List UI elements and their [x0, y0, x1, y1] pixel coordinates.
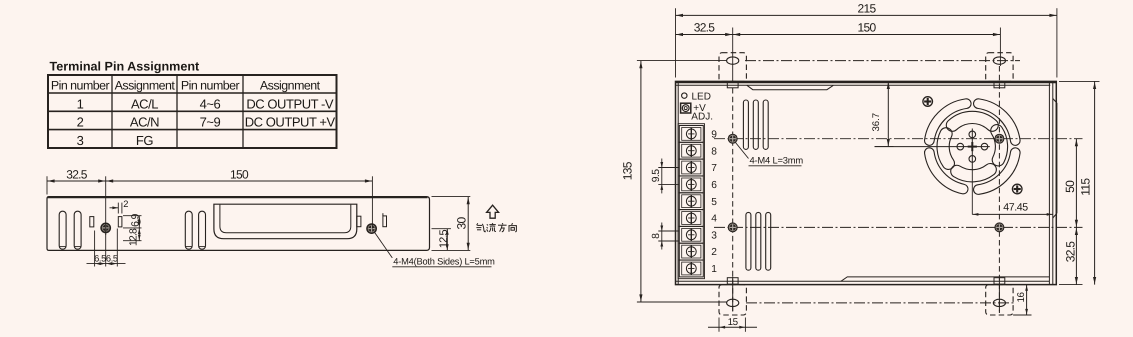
dim 32.5 / 150 (top) — [676, 21, 1001, 82]
mounting bracket bottom-right (dashed) — [986, 278, 1013, 315]
svg-text:6.5: 6.5 — [106, 254, 118, 264]
svg-text:7: 7 — [711, 163, 717, 174]
svg-text:32.5: 32.5 — [66, 167, 88, 181]
bottom bracket centerline solids — [733, 277, 1000, 312]
svg-text:2: 2 — [711, 247, 717, 258]
leader 4-M4 L=3mm — [736, 143, 804, 166]
vertical dashed centerline right screws — [998, 66, 1000, 313]
4-M4 screw top-left — [728, 134, 738, 144]
top view: inner edge lines — [676, 81, 1053, 284]
svg-text:115: 115 — [1078, 178, 1092, 196]
svg-text:Assignment: Assignment — [260, 79, 321, 93]
horizontal dash-dot through top brackets — [745, 60, 1020, 62]
svg-text:215: 215 — [858, 2, 877, 16]
svg-text:12.5: 12.5 — [438, 230, 450, 249]
svg-text:ADJ.: ADJ. — [691, 112, 713, 123]
svg-text:Assignment: Assignment — [115, 79, 176, 93]
svg-text:2: 2 — [123, 199, 128, 209]
top view: bottom cover seam — [841, 277, 1050, 281]
svg-text:150: 150 — [858, 21, 877, 35]
svg-text:8: 8 — [651, 233, 662, 239]
side view: mounting screw hole 2 — [366, 223, 377, 234]
svg-text:6: 6 — [711, 180, 717, 191]
top view: right cover flap — [1053, 99, 1057, 219]
side view: chassis body outline — [47, 197, 430, 251]
svg-text:3: 3 — [711, 230, 717, 241]
svg-text:15: 15 — [728, 317, 739, 328]
fan grille inner kidney slots — [937, 111, 1008, 182]
table grid — [48, 75, 337, 148]
svg-text:9.5: 9.5 — [651, 169, 662, 182]
svg-text:4: 4 — [711, 214, 717, 225]
LED indicator — [682, 91, 711, 102]
dim 15 (bracket width) — [708, 317, 757, 332]
svg-text:12.8: 12.8 — [129, 228, 140, 246]
fan hub small holes — [957, 131, 988, 162]
dim 47.45 (fan center to right edge) — [972, 170, 1053, 216]
mounting bracket top-right (dashed) — [986, 53, 1013, 88]
svg-text:1: 1 — [711, 264, 717, 275]
top view: top cover seam ridge — [747, 85, 833, 89]
side view: label recess outer — [214, 204, 357, 239]
dim 32.5 (side view) — [47, 167, 106, 194]
svg-text:AC/L: AC/L — [131, 96, 158, 111]
svg-text:47.45: 47.45 — [1003, 202, 1028, 214]
top view: vent slot group upper — [743, 100, 768, 149]
svg-text:1: 1 — [77, 96, 84, 111]
dim 50 (screw rows) + 32.5 (to bottom) — [1059, 139, 1083, 285]
dim 36.7 (top edge to fan center) — [871, 81, 893, 146]
dim 6.5 6.5 (below screw 1) — [87, 229, 126, 267]
dim 135 (left, bracket holes) — [621, 61, 727, 302]
top view: vent slot group lower — [746, 212, 771, 270]
side view: label recess inner lip — [220, 205, 351, 233]
svg-text:32.5: 32.5 — [694, 21, 716, 35]
dim 215 (top) — [676, 2, 1057, 78]
svg-text:32.5: 32.5 — [1063, 241, 1077, 263]
dim 30 (side view height) — [432, 197, 471, 251]
case screw top-left of fan — [923, 97, 933, 107]
svg-text:DC OUTPUT -V: DC OUTPUT -V — [246, 96, 334, 111]
4-M4 screw bottom-left — [728, 222, 738, 232]
leader 4-M4(Both Sides) L=5mm — [375, 232, 496, 266]
svg-text:3: 3 — [77, 133, 84, 148]
svg-text:16: 16 — [1016, 292, 1027, 303]
terminal numbers 9..1 — [711, 130, 717, 276]
dim 12.5 (screw height) — [432, 229, 451, 251]
case screw bottom-right of fan — [1012, 184, 1022, 194]
svg-text:DC OUTPUT +V: DC OUTPUT +V — [245, 115, 336, 130]
horizontal dash-dot centerline upper screws — [714, 138, 1083, 140]
horizontal dash-dot through bottom brackets — [746, 302, 1014, 304]
dim 9.5 (terminal pitch) — [651, 159, 680, 194]
dim 6.9 and 12.8 (side view) — [123, 213, 142, 246]
terminal block with 9 screw terminals — [678, 124, 704, 279]
svg-text:4-M4(Both Sides) L=5mm: 4-M4(Both Sides) L=5mm — [393, 256, 495, 266]
side view: mounting screw hole 1 — [100, 223, 111, 234]
dim 16 (bracket below body) — [1013, 285, 1031, 315]
svg-text:7~9: 7~9 — [200, 115, 221, 130]
airflow arrow symbol — [487, 205, 499, 218]
dim 115 (overall) — [1059, 81, 1100, 284]
svg-text:Pin number: Pin number — [181, 79, 240, 93]
svg-text:6.9: 6.9 — [131, 213, 142, 226]
top view: chassis body outline — [676, 81, 1057, 284]
side view: small slot left of screw 1 — [90, 217, 94, 227]
fan grille outer kidney slots — [925, 99, 1021, 195]
+V ADJ potentiometer — [681, 103, 713, 122]
side view: left vent slots — [59, 211, 205, 249]
side view: small slot right of screw 2 — [383, 213, 387, 227]
airflow direction chinese text — [476, 223, 516, 232]
svg-text:4~6: 4~6 — [200, 96, 221, 111]
4-M4 screw bottom-right — [994, 222, 1004, 232]
dim 8 (terminal slot) — [651, 223, 680, 250]
svg-text:5: 5 — [711, 197, 717, 208]
svg-text:4-M4 L=3mm: 4-M4 L=3mm — [750, 154, 804, 165]
svg-text:FG: FG — [136, 133, 153, 148]
horizontal dash-dot centerline lower screws — [714, 226, 1083, 228]
svg-text:30: 30 — [454, 217, 468, 230]
table cell text — [51, 79, 336, 148]
svg-text:Terminal Pin Assignment: Terminal Pin Assignment — [50, 60, 201, 74]
mounting bracket bottom-left (dashed) — [719, 278, 746, 315]
svg-text:6.5: 6.5 — [94, 254, 106, 264]
svg-text:Pin number: Pin number — [51, 79, 110, 93]
svg-text:AC/N: AC/N — [130, 115, 159, 130]
fan center cross — [875, 129, 990, 171]
svg-text:150: 150 — [230, 167, 249, 181]
table: Terminal Pin Assignment title — [50, 60, 201, 74]
mounting bracket top-left (dashed) — [719, 53, 746, 88]
4-M4 screw top-right (on fan) — [994, 134, 1004, 144]
side view: notch right of recess — [357, 216, 361, 227]
vertical dashed centerline left screws — [732, 88, 734, 313]
side view: small slot right of screw 1 — [118, 217, 122, 227]
svg-text:2: 2 — [77, 115, 84, 130]
dim 150 (side view) — [106, 167, 373, 235]
svg-text:50: 50 — [1063, 180, 1077, 193]
svg-text:135: 135 — [621, 161, 635, 180]
svg-text:LED: LED — [692, 91, 711, 102]
dim 2 (slot width) — [110, 199, 129, 214]
svg-text:36.7: 36.7 — [871, 113, 882, 132]
svg-text:8: 8 — [711, 146, 717, 157]
